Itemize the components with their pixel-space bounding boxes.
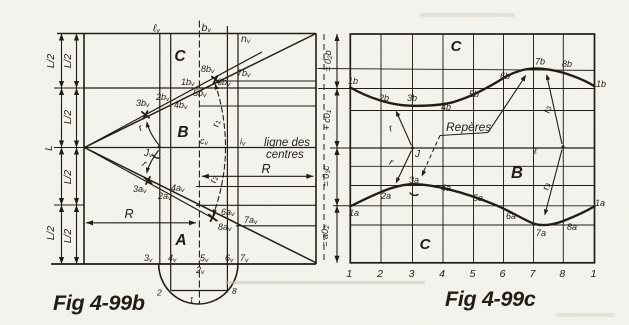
left horizontal line y=88 bbox=[84, 87, 316, 89]
development curve b bbox=[350, 68, 594, 105]
left dimension tick y=88 bbox=[54, 87, 84, 89]
left figure border rectangle bbox=[57, 33, 316, 35]
svg-text:2b: 2b bbox=[378, 93, 389, 103]
middle tick y=148 bbox=[330, 147, 350, 149]
left center vertical (axis, dashed) bbox=[198, 21, 200, 305]
arrowhead r to curve b bbox=[396, 111, 401, 117]
arrowhead r to 3av bbox=[146, 167, 150, 173]
leader Reperes to curve b bbox=[488, 76, 526, 133]
leader r3 to curve a bbox=[545, 150, 562, 215]
svg-text:L/2: L/2 bbox=[46, 54, 57, 69]
svg-text:L: L bbox=[44, 145, 55, 151]
svg-text:5: 5 bbox=[470, 268, 476, 280]
svg-text:C: C bbox=[420, 236, 432, 253]
point Jv bbox=[158, 145, 161, 148]
lower R dimension line bbox=[86, 222, 196, 224]
svg-text:1: 1 bbox=[591, 268, 597, 280]
right figure vertical gridlines bbox=[380, 34, 382, 263]
left center line (ligne des centres) bbox=[84, 147, 316, 149]
scan smudge bottom right bbox=[555, 313, 615, 317]
middle dimension arrowheads bbox=[334, 34, 339, 41]
arrowhead r3 to curve b bbox=[546, 74, 550, 80]
secondary lower diagonal from apex bbox=[85, 148, 219, 222]
middle tick y=88.5 bbox=[318, 88, 350, 90]
point at gridline 8 center bbox=[562, 145, 565, 148]
leader r to curve a bbox=[397, 151, 412, 183]
middle dimension vertical line bbox=[336, 34, 338, 263]
right figure border rectangle bbox=[350, 34, 594, 263]
svg-text:L/2: L/2 bbox=[63, 110, 74, 125]
chord line inside semicircle bbox=[171, 290, 228, 292]
svg-text:C: C bbox=[174, 48, 186, 65]
point J bbox=[411, 147, 414, 150]
svg-text:B: B bbox=[511, 164, 523, 182]
leader r to 3bv bbox=[147, 123, 159, 145]
svg-text:R: R bbox=[261, 162, 270, 176]
arrowhead r to 3bv bbox=[146, 122, 150, 128]
left partial horizontal y=81 bbox=[216, 80, 316, 82]
svg-text:ℓ: ℓ bbox=[533, 146, 537, 156]
left dimension inner vertical line bbox=[76, 34, 78, 265]
svg-text:6: 6 bbox=[500, 268, 506, 280]
middle tick y=205.8 bbox=[333, 205, 350, 207]
svg-text:7b: 7b bbox=[535, 57, 545, 67]
svg-text:8b: 8b bbox=[562, 59, 572, 69]
svg-text:centres: centres bbox=[266, 149, 304, 161]
left dimension tick y=205 bbox=[54, 204, 84, 206]
svg-text:1a: 1a bbox=[595, 198, 605, 208]
hook mark at Jv bbox=[153, 155, 161, 158]
svg-text:7a: 7a bbox=[536, 228, 546, 238]
left vertical line 6 bbox=[226, 26, 228, 291]
arrowhead bottom of swing arc bbox=[213, 209, 217, 215]
left partial horizontal y=205.3 bbox=[196, 204, 316, 206]
cross mark 8av bbox=[209, 214, 216, 221]
svg-text:A: A bbox=[174, 232, 186, 249]
secondary upper diagonal from apex bbox=[85, 52, 263, 148]
svg-text:3b: 3b bbox=[407, 93, 417, 103]
leader r to 3av bbox=[147, 151, 159, 173]
leader r to curve b bbox=[397, 112, 412, 146]
svg-text:6b: 6b bbox=[500, 71, 510, 81]
svg-text:5a: 5a bbox=[473, 193, 483, 203]
svg-text:2: 2 bbox=[376, 268, 383, 280]
svg-text:1b: 1b bbox=[348, 76, 358, 86]
scan smudge top middle bbox=[420, 13, 515, 17]
svg-text:Repères: Repères bbox=[446, 120, 491, 134]
svg-text:8: 8 bbox=[232, 286, 237, 296]
left partial horizontal y=106 bbox=[199, 105, 316, 107]
left vertical line lv bbox=[159, 34, 161, 265]
svg-text:5b: 5b bbox=[469, 89, 479, 99]
hook mark at 3a bbox=[410, 193, 418, 195]
svg-text:6a: 6a bbox=[506, 211, 516, 221]
svg-text:1: 1 bbox=[189, 295, 194, 305]
svg-text:2a: 2a bbox=[380, 191, 391, 201]
left partial horizontal y=225.8 bbox=[236, 225, 316, 227]
upper R dimension line bbox=[202, 175, 314, 177]
svg-text:L/2: L/2 bbox=[63, 54, 74, 69]
svg-text:1b: 1b bbox=[596, 79, 606, 89]
svg-text:B: B bbox=[177, 124, 188, 141]
arrowhead r3 to curve a bbox=[544, 209, 548, 215]
left dimension outer vertical line bbox=[61, 34, 63, 265]
svg-text:1: 1 bbox=[346, 268, 352, 280]
right figure horizontal gridlines bbox=[350, 88, 594, 90]
leader r3 to curve b bbox=[547, 76, 562, 145]
dashed radius swing arc r1-r2 bbox=[213, 84, 226, 216]
cross mark 8bv bbox=[212, 76, 219, 83]
main diagonal apex to bottom-right corner bbox=[85, 148, 317, 264]
arrowhead top of swing arc bbox=[215, 84, 219, 90]
development curve a bbox=[350, 184, 594, 225]
upper R arrowheads bbox=[202, 174, 209, 179]
svg-text:8a: 8a bbox=[567, 222, 577, 232]
svg-text:J: J bbox=[414, 149, 421, 160]
svg-text:L/2: L/2 bbox=[63, 229, 74, 244]
dashed projection line between figures bbox=[323, 34, 325, 263]
left dimension arrowheads bbox=[59, 34, 64, 41]
underline of Reperes bbox=[440, 133, 488, 136]
left vertical line 4 bbox=[170, 34, 172, 291]
arrowhead r to curve a bbox=[396, 177, 401, 183]
left dimension tick y=147.5 bbox=[54, 147, 84, 149]
svg-text:4b: 4b bbox=[441, 102, 451, 112]
scan smudge bottom left bbox=[225, 281, 425, 284]
dashed leader Reperes to J hook bbox=[422, 136, 440, 176]
svg-text:2: 2 bbox=[156, 288, 162, 298]
svg-text:3a: 3a bbox=[409, 175, 419, 185]
left vertical line nv bbox=[237, 34, 239, 265]
arrowhead Reperes leader bbox=[521, 75, 527, 82]
svg-text:8: 8 bbox=[559, 268, 565, 280]
main diagonal apex to top-right corner bbox=[85, 34, 317, 148]
cross mark 3av bbox=[144, 177, 151, 184]
semicircle (half cylinder) below left figure bbox=[159, 264, 238, 304]
cross mark 3bv bbox=[142, 111, 149, 118]
svg-text:Fig 4-99c: Fig 4-99c bbox=[445, 287, 536, 311]
svg-text:4a: 4a bbox=[441, 183, 451, 193]
svg-text:Fig 4-99b: Fig 4-99b bbox=[53, 291, 145, 315]
svg-text:L/2: L/2 bbox=[46, 226, 57, 241]
svg-text:4: 4 bbox=[439, 268, 445, 280]
svg-text:3: 3 bbox=[409, 268, 415, 280]
svg-text:L/2: L/2 bbox=[63, 170, 74, 185]
svg-text:R: R bbox=[124, 207, 133, 221]
lower R arrowheads bbox=[86, 220, 93, 225]
left partial horizontal y=186.5 bbox=[196, 186, 316, 188]
arrowhead dashed leader bbox=[422, 170, 427, 176]
svg-text:1a: 1a bbox=[349, 208, 359, 218]
svg-text:= 03c: = 03c bbox=[321, 165, 332, 186]
svg-text:ligne des: ligne des bbox=[264, 137, 310, 149]
svg-text:C: C bbox=[451, 38, 463, 55]
